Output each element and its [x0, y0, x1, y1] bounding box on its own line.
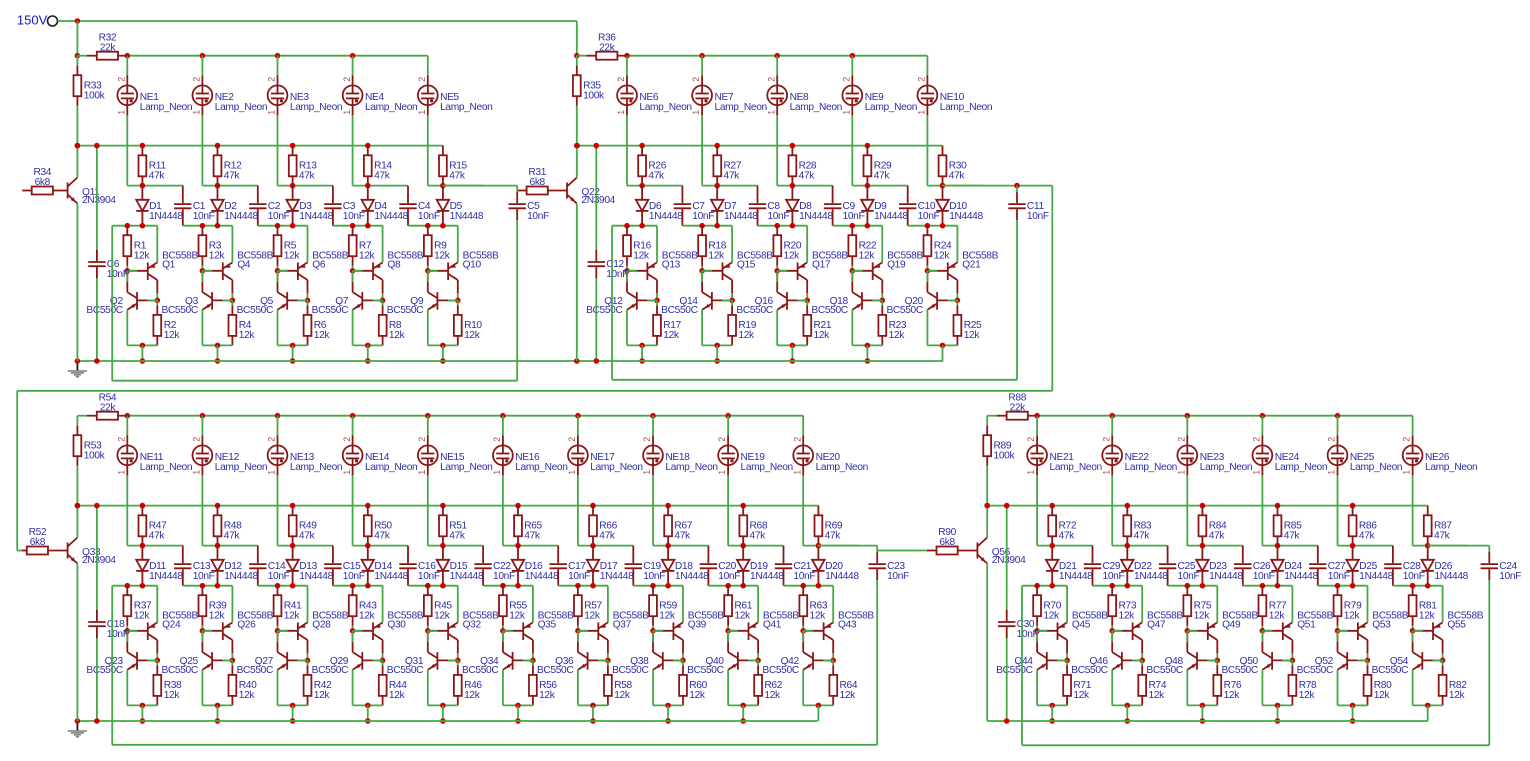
svg-text:Lamp_Neon: Lamp_Neon [1125, 462, 1177, 473]
svg-text:Lamp_Neon: Lamp_Neon [665, 462, 717, 473]
svg-text:2: 2 [841, 77, 851, 82]
svg-text:47k: 47k [799, 171, 816, 182]
svg-text:BC550C: BC550C [811, 305, 847, 316]
svg-text:Lamp_Neon: Lamp_Neon [1200, 462, 1252, 473]
svg-text:1N4448: 1N4448 [1059, 571, 1093, 582]
svg-text:47k: 47k [299, 531, 316, 542]
svg-text:1: 1 [492, 470, 502, 475]
svg-text:2: 2 [342, 437, 352, 442]
svg-text:47k: 47k [449, 531, 466, 542]
svg-text:2: 2 [1176, 437, 1186, 442]
svg-text:6k8: 6k8 [530, 177, 546, 188]
svg-text:10nF: 10nF [843, 211, 865, 222]
svg-text:22k: 22k [100, 402, 117, 413]
svg-text:10nF: 10nF [1499, 571, 1521, 582]
svg-text:1: 1 [417, 470, 427, 475]
svg-text:BC550C: BC550C [687, 665, 723, 676]
svg-text:12k: 12k [539, 690, 556, 701]
svg-text:10nF: 10nF [193, 211, 215, 222]
svg-text:1: 1 [267, 110, 277, 115]
svg-text:47k: 47k [724, 171, 741, 182]
svg-text:Q17: Q17 [812, 259, 831, 270]
svg-text:47k: 47k [1209, 531, 1226, 542]
svg-text:47k: 47k [149, 531, 166, 542]
svg-text:1: 1 [192, 110, 202, 115]
svg-text:6k8: 6k8 [939, 537, 955, 548]
svg-text:47k: 47k [1059, 531, 1076, 542]
svg-text:1: 1 [1252, 470, 1262, 475]
svg-text:1N4448: 1N4448 [724, 211, 758, 222]
svg-text:12k: 12k [1119, 611, 1136, 622]
svg-text:Lamp_Neon: Lamp_Neon [140, 102, 192, 113]
svg-text:2: 2 [492, 437, 502, 442]
svg-text:100k: 100k [84, 91, 106, 102]
svg-text:12k: 12k [1224, 690, 1241, 701]
svg-text:10nF: 10nF [568, 571, 590, 582]
svg-text:Q15: Q15 [737, 259, 756, 270]
svg-text:BC550C: BC550C [612, 665, 648, 676]
svg-text:10nF: 10nF [1017, 629, 1039, 640]
svg-text:22k: 22k [1010, 402, 1027, 413]
svg-text:2: 2 [1402, 437, 1412, 442]
svg-text:100k: 100k [994, 451, 1016, 462]
svg-text:1N4448: 1N4448 [450, 571, 484, 582]
svg-text:47k: 47k [750, 531, 767, 542]
svg-text:47k: 47k [1134, 531, 1151, 542]
svg-text:Lamp_Neon: Lamp_Neon [865, 102, 917, 113]
svg-text:47k: 47k [825, 531, 842, 542]
svg-text:1: 1 [1176, 470, 1186, 475]
svg-text:12k: 12k [164, 690, 181, 701]
svg-text:Q45: Q45 [1072, 619, 1091, 630]
svg-text:100k: 100k [583, 91, 605, 102]
svg-text:Q24: Q24 [162, 619, 181, 630]
svg-text:BC550C: BC550C [161, 305, 197, 316]
svg-text:47k: 47k [599, 531, 616, 542]
svg-text:1N4448: 1N4448 [1209, 571, 1243, 582]
svg-text:Q28: Q28 [312, 619, 331, 630]
svg-text:1N4448: 1N4448 [374, 571, 408, 582]
svg-text:2: 2 [1327, 437, 1337, 442]
svg-text:12k: 12k [1344, 611, 1361, 622]
svg-text:6k8: 6k8 [30, 537, 46, 548]
svg-text:10nF: 10nF [767, 211, 789, 222]
svg-text:2: 2 [267, 77, 277, 82]
svg-text:BC550C: BC550C [387, 305, 423, 316]
svg-text:12k: 12k [314, 690, 331, 701]
svg-text:Q26: Q26 [237, 619, 256, 630]
svg-text:12k: 12k [814, 330, 831, 341]
svg-text:12k: 12k [1043, 611, 1060, 622]
svg-text:2: 2 [192, 437, 202, 442]
svg-text:1N4448: 1N4448 [874, 211, 908, 222]
svg-text:47k: 47k [224, 531, 241, 542]
svg-text:12k: 12k [859, 251, 876, 262]
svg-text:12k: 12k [359, 611, 376, 622]
svg-text:1N4448: 1N4448 [525, 571, 559, 582]
svg-text:12k: 12k [784, 251, 801, 262]
svg-text:10nF: 10nF [107, 269, 129, 280]
svg-text:2: 2 [417, 77, 427, 82]
svg-text:12k: 12k [239, 330, 256, 341]
svg-text:BC550C: BC550C [86, 305, 122, 316]
svg-text:12k: 12k [889, 330, 906, 341]
svg-text:2N3904: 2N3904 [82, 195, 116, 206]
svg-text:12k: 12k [1194, 611, 1211, 622]
svg-text:10nF: 10nF [718, 571, 740, 582]
svg-text:2N3904: 2N3904 [992, 555, 1026, 566]
svg-text:1: 1 [192, 470, 202, 475]
svg-text:BC550C: BC550C [736, 305, 772, 316]
svg-text:Lamp_Neon: Lamp_Neon [440, 102, 492, 113]
svg-text:12k: 12k [738, 330, 755, 341]
svg-text:Lamp_Neon: Lamp_Neon [290, 462, 342, 473]
svg-text:12k: 12k [934, 251, 951, 262]
svg-text:47k: 47k [1434, 531, 1451, 542]
svg-text:Lamp_Neon: Lamp_Neon [790, 102, 842, 113]
svg-text:Q32: Q32 [463, 619, 482, 630]
svg-text:10nF: 10nF [107, 629, 129, 640]
svg-text:2: 2 [691, 77, 701, 82]
svg-text:Lamp_Neon: Lamp_Neon [215, 462, 267, 473]
svg-text:10nF: 10nF [343, 211, 365, 222]
svg-text:2: 2 [766, 77, 776, 82]
svg-text:Q49: Q49 [1222, 619, 1241, 630]
svg-text:47k: 47k [524, 531, 541, 542]
svg-text:12k: 12k [1269, 611, 1286, 622]
svg-text:BC550C: BC550C [161, 665, 197, 676]
svg-text:2: 2 [192, 77, 202, 82]
svg-text:12k: 12k [1073, 690, 1090, 701]
svg-text:12k: 12k [164, 330, 181, 341]
svg-text:Lamp_Neon: Lamp_Neon [365, 462, 417, 473]
svg-text:1N4448: 1N4448 [675, 571, 709, 582]
svg-text:1: 1 [1101, 470, 1111, 475]
svg-text:12k: 12k [1299, 690, 1316, 701]
svg-text:12k: 12k [764, 690, 781, 701]
svg-text:2: 2 [567, 437, 577, 442]
svg-text:Q37: Q37 [613, 619, 632, 630]
svg-text:Q1: Q1 [162, 259, 176, 270]
svg-text:12k: 12k [659, 611, 676, 622]
svg-text:12k: 12k [964, 330, 981, 341]
svg-text:10nF: 10nF [193, 571, 215, 582]
svg-text:10nF: 10nF [1103, 571, 1125, 582]
svg-text:Q8: Q8 [387, 259, 401, 270]
svg-text:Q35: Q35 [538, 619, 557, 630]
svg-text:Q13: Q13 [662, 259, 681, 270]
svg-text:12k: 12k [810, 611, 827, 622]
svg-text:Lamp_Neon: Lamp_Neon [639, 102, 691, 113]
svg-text:12k: 12k [314, 330, 331, 341]
svg-text:BC550C: BC550C [1071, 665, 1107, 676]
svg-text:BC550C: BC550C [1146, 665, 1182, 676]
svg-text:BC550C: BC550C [387, 665, 423, 676]
svg-text:Q6: Q6 [312, 259, 326, 270]
svg-text:1: 1 [417, 110, 427, 115]
svg-text:1N4448: 1N4448 [1284, 571, 1318, 582]
svg-text:47k: 47k [1284, 531, 1301, 542]
svg-text:47k: 47k [874, 171, 891, 182]
svg-text:1: 1 [116, 470, 126, 475]
svg-text:Lamp_Neon: Lamp_Neon [1350, 462, 1402, 473]
svg-text:47k: 47k [149, 171, 166, 182]
svg-text:2: 2 [1026, 437, 1036, 442]
svg-text:1: 1 [642, 470, 652, 475]
svg-text:12k: 12k [663, 330, 680, 341]
svg-text:12k: 12k [359, 251, 376, 262]
svg-text:10nF: 10nF [418, 211, 440, 222]
svg-text:12k: 12k [840, 690, 857, 701]
svg-text:BC550C: BC550C [237, 305, 273, 316]
svg-text:100k: 100k [84, 451, 106, 462]
svg-text:Lamp_Neon: Lamp_Neon [590, 462, 642, 473]
svg-text:Lamp_Neon: Lamp_Neon [140, 462, 192, 473]
svg-text:1N4448: 1N4448 [1134, 571, 1168, 582]
svg-text:12k: 12k [464, 330, 481, 341]
svg-text:10nF: 10nF [1403, 571, 1425, 582]
svg-text:BC550C: BC550C [1221, 665, 1257, 676]
svg-text:BC550C: BC550C [762, 665, 798, 676]
svg-text:BC550C: BC550C [586, 305, 622, 316]
svg-text:1: 1 [841, 110, 851, 115]
svg-text:10nF: 10nF [268, 211, 290, 222]
svg-text:12k: 12k [284, 611, 301, 622]
svg-text:2: 2 [342, 77, 352, 82]
svg-text:Lamp_Neon: Lamp_Neon [440, 462, 492, 473]
svg-text:2N3904: 2N3904 [581, 195, 615, 206]
svg-text:12k: 12k [1449, 690, 1466, 701]
svg-text:Lamp_Neon: Lamp_Neon [1050, 462, 1102, 473]
svg-text:10nF: 10nF [527, 211, 549, 222]
svg-text:2: 2 [642, 437, 652, 442]
svg-text:1N4448: 1N4448 [1434, 571, 1468, 582]
svg-text:1: 1 [342, 470, 352, 475]
svg-text:1N4448: 1N4448 [374, 211, 408, 222]
svg-text:1: 1 [116, 110, 126, 115]
svg-text:Q55: Q55 [1447, 619, 1466, 630]
svg-text:Lamp_Neon: Lamp_Neon [1275, 462, 1327, 473]
svg-text:Q10: Q10 [463, 259, 482, 270]
svg-text:10nF: 10nF [643, 571, 665, 582]
svg-text:10nF: 10nF [887, 571, 909, 582]
svg-text:Q43: Q43 [838, 619, 857, 630]
svg-text:BC550C: BC550C [462, 665, 498, 676]
svg-text:12k: 12k [734, 611, 751, 622]
svg-text:BC550C: BC550C [312, 665, 348, 676]
svg-text:12k: 12k [389, 330, 406, 341]
svg-text:12k: 12k [284, 251, 301, 262]
svg-text:47k: 47k [374, 531, 391, 542]
svg-text:12k: 12k [209, 251, 226, 262]
svg-text:1: 1 [1026, 470, 1036, 475]
svg-text:Q30: Q30 [387, 619, 406, 630]
svg-text:10nF: 10nF [692, 211, 714, 222]
svg-text:2: 2 [417, 437, 427, 442]
svg-text:10nF: 10nF [343, 571, 365, 582]
svg-text:10nF: 10nF [268, 571, 290, 582]
svg-text:10nF: 10nF [606, 269, 628, 280]
svg-text:1N4448: 1N4448 [149, 211, 183, 222]
svg-text:2: 2 [1252, 437, 1262, 442]
svg-text:BC550C: BC550C [312, 305, 348, 316]
svg-text:12k: 12k [1374, 690, 1391, 701]
svg-text:12k: 12k [689, 690, 706, 701]
svg-text:1: 1 [616, 110, 626, 115]
svg-text:12k: 12k [584, 611, 601, 622]
svg-text:150V: 150V [17, 13, 48, 28]
svg-text:2: 2 [267, 437, 277, 442]
svg-text:Lamp_Neon: Lamp_Neon [290, 102, 342, 113]
svg-text:BC550C: BC550C [996, 665, 1032, 676]
svg-text:2: 2 [116, 77, 126, 82]
svg-text:10nF: 10nF [918, 211, 940, 222]
svg-text:2: 2 [1101, 437, 1111, 442]
svg-text:47k: 47k [949, 171, 966, 182]
svg-text:1: 1 [792, 470, 802, 475]
svg-text:BC550C: BC550C [1297, 665, 1333, 676]
svg-text:Q39: Q39 [688, 619, 707, 630]
svg-text:BC550C: BC550C [537, 665, 573, 676]
svg-text:Q47: Q47 [1147, 619, 1166, 630]
svg-text:12k: 12k [614, 690, 631, 701]
svg-text:BC550C: BC550C [237, 665, 273, 676]
svg-text:1N4448: 1N4448 [799, 211, 833, 222]
svg-text:BC550C: BC550C [86, 665, 122, 676]
svg-text:47k: 47k [299, 171, 316, 182]
svg-text:Lamp_Neon: Lamp_Neon [365, 102, 417, 113]
svg-text:1N4448: 1N4448 [649, 211, 683, 222]
svg-text:12k: 12k [134, 251, 151, 262]
svg-text:1N4448: 1N4448 [600, 571, 634, 582]
svg-text:Lamp_Neon: Lamp_Neon [515, 462, 567, 473]
svg-text:12k: 12k [434, 251, 451, 262]
svg-text:1: 1 [1327, 470, 1337, 475]
svg-text:Q51: Q51 [1297, 619, 1316, 630]
svg-text:2: 2 [616, 77, 626, 82]
svg-text:10nF: 10nF [1027, 211, 1049, 222]
svg-text:2N3904: 2N3904 [82, 555, 116, 566]
svg-text:1: 1 [1402, 470, 1412, 475]
svg-text:22k: 22k [100, 42, 117, 53]
svg-text:10nF: 10nF [493, 571, 515, 582]
svg-text:2: 2 [792, 437, 802, 442]
svg-text:47k: 47k [374, 171, 391, 182]
svg-text:1: 1 [267, 470, 277, 475]
svg-text:Lamp_Neon: Lamp_Neon [215, 102, 267, 113]
svg-text:1: 1 [766, 110, 776, 115]
svg-text:10nF: 10nF [1328, 571, 1350, 582]
svg-text:1N4448: 1N4448 [149, 571, 183, 582]
svg-text:12k: 12k [708, 251, 725, 262]
svg-text:12k: 12k [134, 611, 151, 622]
svg-text:12k: 12k [239, 690, 256, 701]
svg-text:10nF: 10nF [1178, 571, 1200, 582]
svg-text:1N4448: 1N4448 [450, 211, 484, 222]
svg-text:1: 1 [342, 110, 352, 115]
svg-text:22k: 22k [599, 42, 616, 53]
svg-text:Lamp_Neon: Lamp_Neon [816, 462, 868, 473]
svg-text:1: 1 [717, 470, 727, 475]
svg-text:1: 1 [567, 470, 577, 475]
svg-text:12k: 12k [509, 611, 526, 622]
svg-text:BC550C: BC550C [661, 305, 697, 316]
svg-text:1: 1 [691, 110, 701, 115]
svg-text:12k: 12k [1419, 611, 1436, 622]
svg-text:BC550C: BC550C [1372, 665, 1408, 676]
svg-text:Q4: Q4 [237, 259, 251, 270]
svg-text:12k: 12k [1149, 690, 1166, 701]
svg-text:47k: 47k [449, 171, 466, 182]
svg-text:Lamp_Neon: Lamp_Neon [1425, 462, 1477, 473]
svg-text:1N4448: 1N4448 [1359, 571, 1393, 582]
svg-text:Lamp_Neon: Lamp_Neon [715, 102, 767, 113]
svg-text:2: 2 [717, 437, 727, 442]
svg-text:2: 2 [116, 437, 126, 442]
svg-text:12k: 12k [434, 611, 451, 622]
svg-text:12k: 12k [389, 690, 406, 701]
svg-text:47k: 47k [674, 531, 691, 542]
svg-text:47k: 47k [648, 171, 665, 182]
svg-text:1N4448: 1N4448 [224, 211, 258, 222]
svg-text:BC550C: BC550C [886, 305, 922, 316]
svg-text:Q19: Q19 [887, 259, 906, 270]
svg-text:1N4448: 1N4448 [825, 571, 859, 582]
svg-text:1: 1 [917, 110, 927, 115]
svg-text:12k: 12k [464, 690, 481, 701]
svg-text:1N4448: 1N4448 [299, 211, 333, 222]
svg-text:Lamp_Neon: Lamp_Neon [940, 102, 992, 113]
svg-text:12k: 12k [633, 251, 650, 262]
svg-text:Q21: Q21 [962, 259, 981, 270]
svg-text:10nF: 10nF [793, 571, 815, 582]
svg-text:6k8: 6k8 [35, 177, 51, 188]
svg-text:2: 2 [917, 77, 927, 82]
svg-text:Q41: Q41 [763, 619, 782, 630]
svg-text:47k: 47k [224, 171, 241, 182]
svg-text:1N4448: 1N4448 [224, 571, 258, 582]
svg-text:10nF: 10nF [418, 571, 440, 582]
svg-text:Q53: Q53 [1372, 619, 1391, 630]
svg-text:1N4448: 1N4448 [949, 211, 983, 222]
svg-text:12k: 12k [209, 611, 226, 622]
svg-text:Lamp_Neon: Lamp_Neon [741, 462, 793, 473]
svg-text:1N4448: 1N4448 [299, 571, 333, 582]
svg-text:1N4448: 1N4448 [750, 571, 784, 582]
svg-text:10nF: 10nF [1253, 571, 1275, 582]
svg-text:47k: 47k [1359, 531, 1376, 542]
